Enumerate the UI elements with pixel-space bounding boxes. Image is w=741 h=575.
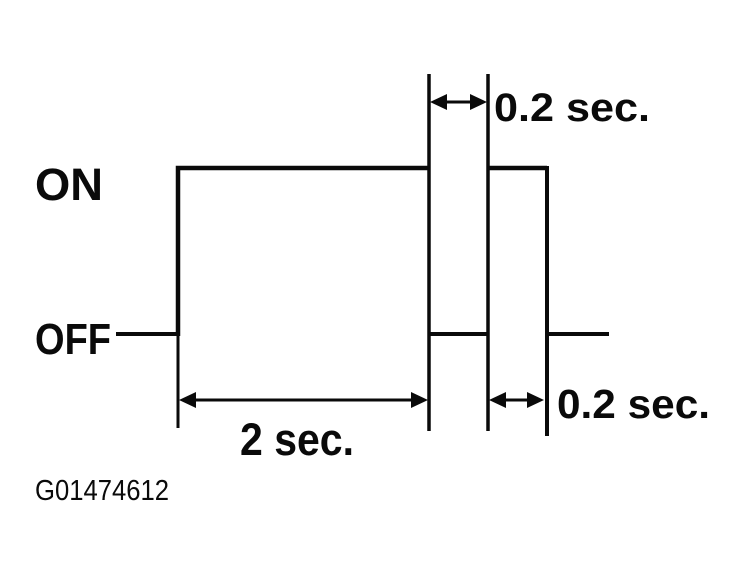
dimension arrow 2 sec <box>179 392 428 408</box>
dimension arrow 0.2 sec top <box>430 94 487 110</box>
svg-text:G01474612: G01474612 <box>35 475 169 507</box>
wire extension line at pulse1 falling edge <box>427 74 431 431</box>
svg-text:2 sec.: 2 sec. <box>240 414 354 465</box>
svg-text:0.2 sec.: 0.2 sec. <box>557 381 710 427</box>
wire pulse2 falling edge <box>545 166 549 436</box>
wire OFF segment between pulses <box>429 332 488 336</box>
svg-text:ON: ON <box>35 159 103 210</box>
svg-text:0.2 sec.: 0.2 sec. <box>494 86 650 130</box>
wire pulse1 rising edge and top <box>178 168 429 336</box>
wire pulse1 rising edge extension below OFF <box>177 334 180 428</box>
wire OFF tail <box>547 332 609 336</box>
wire extension line at pulse2 rising edge <box>486 74 490 431</box>
dimension arrow 0.2 sec bottom <box>489 392 544 408</box>
wire OFF lead-in <box>116 332 180 336</box>
wire pulse2 top <box>488 166 547 171</box>
svg-text:OFF: OFF <box>35 315 111 364</box>
